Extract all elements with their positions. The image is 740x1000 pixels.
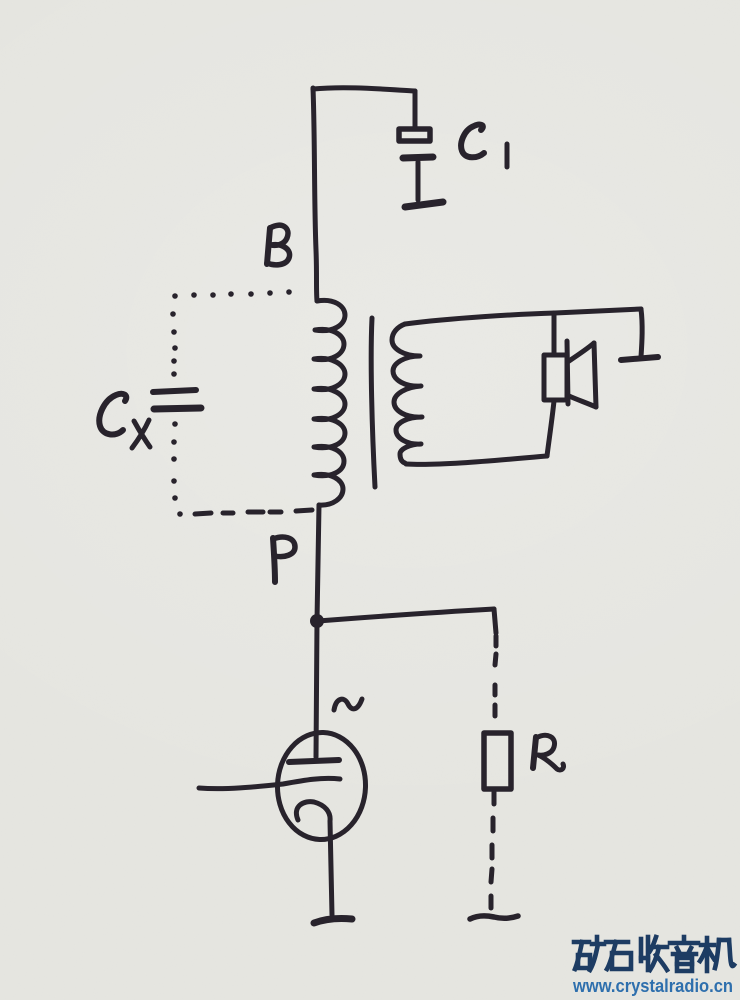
- svg-text:www.crystalradio.cn: www.crystalradio.cn: [572, 976, 733, 996]
